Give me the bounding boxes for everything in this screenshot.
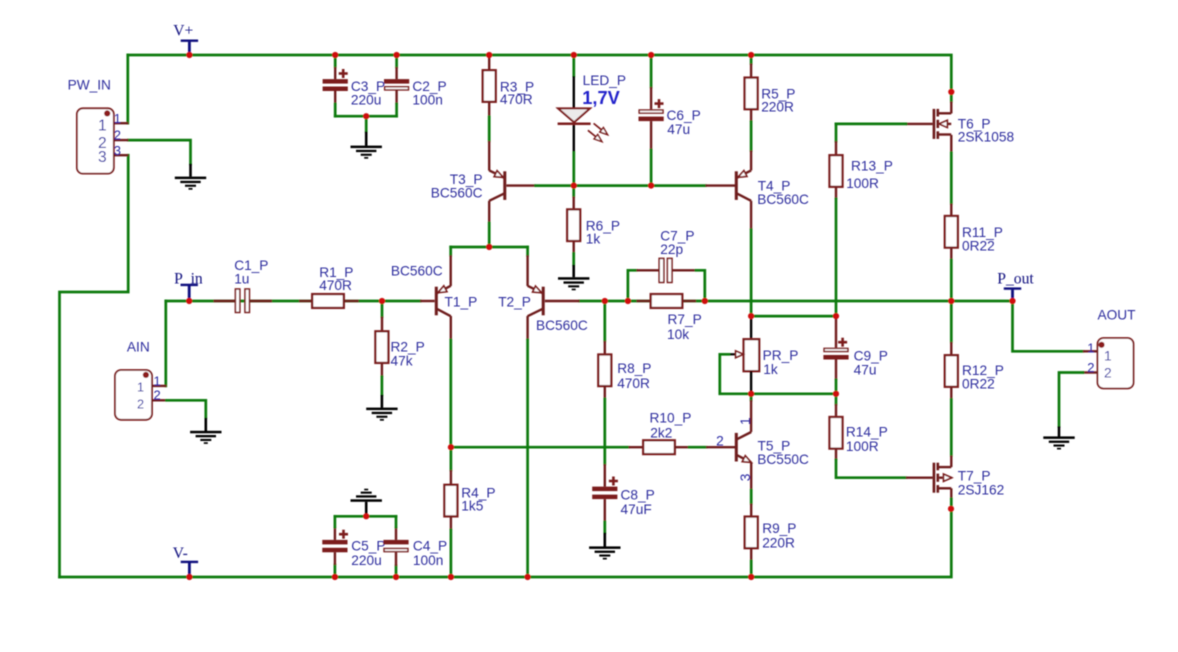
wire T3/T4 base rail [506,184,535,186]
supply flag V- [181,561,198,563]
transistor T3_P BC560C [488,141,490,171]
svg-text:1k: 1k [586,232,601,247]
wire bias top rail [751,315,836,318]
connector AIN [115,370,152,420]
svg-text:R7_P: R7_P [668,312,702,327]
LED LED_P 1,7V [572,55,575,76]
svg-text:R10_P: R10_P [650,410,692,425]
junction C2 top [394,52,400,58]
svg-text:3: 3 [114,143,121,158]
wire T5 emitter down [750,462,752,490]
svg-text:C8_P: C8_P [621,488,655,503]
svg-text:100R: 100R [846,176,879,191]
junction R4 bottom [448,574,454,580]
wire C5/C4 tops to ground [335,515,396,518]
ground below R2 [381,395,384,408]
svg-text:2: 2 [114,128,121,143]
junction P_in [186,298,192,304]
svg-text:1k: 1k [763,362,778,377]
junction C3 top [332,52,338,58]
svg-text:47uF: 47uF [621,502,652,517]
wire AOUT pin2 to ground [1059,373,1083,427]
wire PW_IN pin1 to V+ rail [126,55,129,123]
wire R13 down to bias node [835,199,838,316]
resistor R9_P 220R [750,504,752,517]
wire R8 to C8 [603,399,606,464]
wire T5 collector up [750,394,753,400]
svg-text:220R: 220R [761,99,794,114]
ground for AOUT pin2 [1058,426,1061,436]
junction LED top [571,52,577,58]
junction output node [948,298,954,304]
transistor T2_P BC560C [545,300,580,302]
junction V- on bottom rail [186,574,192,580]
svg-text:47u: 47u [667,122,690,137]
svg-text:PR_P: PR_P [763,348,799,363]
svg-text:100R: 100R [846,439,879,454]
svg-text:C5_P: C5_P [351,539,385,554]
wire V- bottom rail [60,509,952,577]
svg-text:R9_P: R9_P [762,521,796,536]
ground below R6 [572,265,575,277]
capacitor C7_P 22p [628,270,637,301]
resistor R8_P 470R [603,301,606,341]
svg-text:100n: 100n [412,93,442,108]
junction R1/R2/T1 base [379,298,385,304]
wire R4/T5 base row [451,446,629,449]
svg-text:470R: 470R [617,376,650,391]
svg-text:P_in: P_in [174,270,203,287]
svg-text:R14_P: R14_P [846,425,888,440]
connector AOUT [1098,338,1134,389]
capacitor C2_P 100n [395,55,398,67]
junction bias top / T4 collector [748,313,754,319]
wire T2 base to output row) [580,300,1013,303]
junction C6 bottom [648,183,654,189]
potentiometer PR_P 1k [750,316,752,339]
junction C3/C2 ground node [363,113,369,119]
junction R9 bottom [748,574,754,580]
wire T2 emitter up [526,247,529,255]
transistor T5_P BC550C [706,446,735,448]
svg-text:V+: V+ [173,23,193,40]
svg-text:2: 2 [1104,366,1112,381]
wire T1/T2 emitter rail [451,246,528,249]
svg-text:T1_P: T1_P [445,295,478,310]
svg-text:220R: 220R [762,535,795,550]
svg-text:47k: 47k [391,353,413,368]
ground below C3/C2 [365,132,368,146]
svg-text:C6_P: C6_P [667,108,701,123]
ground below C8 [603,533,606,547]
svg-text:10k: 10k [667,327,689,342]
svg-text:0R22: 0R22 [962,239,995,254]
resistor R5_P 220R [750,55,753,64]
junction C5 bottom [332,574,338,580]
svg-text:470R: 470R [500,92,533,107]
junction C6 top [648,52,654,58]
svg-text:2: 2 [716,434,724,449]
wire T1 collector down [450,316,452,340]
net flag P_in [181,284,198,286]
svg-text:2: 2 [1087,360,1094,375]
transistor T4_P BC560C [750,151,752,171]
svg-text:BC560C: BC560C [431,185,483,200]
transistor T6_P 2SK1058 N-MOSFET [950,92,953,102]
capacitor C4_P 100n [395,566,398,577]
wire R10 to T5 base [689,446,706,449]
junction C4 bottom [393,574,399,580]
junction T1 collector / R4 [448,444,454,450]
LED light arrows [594,123,602,130]
svg-text:100n: 100n [413,553,443,568]
wire output to AOUT pin1 [1013,301,1083,351]
svg-text:BC550C: BC550C [757,452,809,467]
svg-text:2k2: 2k2 [650,425,672,440]
resistor R3_P 470R [488,55,490,70]
svg-text:T2_P: T2_P [498,295,531,310]
wire AIN pin2 to ground [167,400,206,418]
svg-text:V-: V- [173,545,188,562]
resistor R6_P 1k [572,186,575,197]
junction C9 top [833,313,839,319]
junction R7/C7 right [702,298,708,304]
resistor R4_P 1k5 [450,447,453,470]
junction C9 bottom [833,391,839,397]
junction T7 drain [948,506,954,512]
svg-text:1: 1 [137,380,144,394]
capacitor C1_P 1u [214,300,235,302]
wire V+ top rail [128,55,952,92]
resistor R14_P 100R [835,394,838,404]
resistor R12_P 0R22 [950,301,953,342]
svg-text:2: 2 [137,397,144,411]
svg-text:LED_P: LED_P [583,73,626,88]
wire input column down to AIN [164,301,167,386]
svg-text:1: 1 [1104,349,1112,364]
svg-text:220u: 220u [351,93,381,108]
wire T1 emitter up [449,247,452,255]
capacitor C8_P 47uF [604,464,606,487]
wire T2 collector down to V- rail [526,316,528,340]
resistor R7_P 10k [637,300,651,302]
junction emitter rail / T3 collector [486,244,492,250]
svg-text:AIN: AIN [127,340,150,355]
svg-text:1k5: 1k5 [461,499,483,514]
ground for PW_IN pin2 [189,164,192,177]
svg-text:2SK1058: 2SK1058 [958,130,1015,145]
capacitor C9_P 47u [835,316,837,348]
ground above C5/C4 (inverted) [365,502,368,517]
svg-text:C9_P: C9_P [854,349,888,364]
wire T6 source to R11 [950,153,953,204]
svg-text:R8_P: R8_P [617,361,651,376]
svg-text:2: 2 [154,388,161,403]
wire T4 collector down [750,230,753,316]
resistor R2_P 47k [381,301,384,317]
junction T2 collector bottom [525,574,531,580]
svg-text:1: 1 [114,111,121,126]
svg-text:3: 3 [98,149,107,166]
svg-text:P_out: P_out [997,270,1034,287]
svg-text:1,7V: 1,7V [582,88,619,108]
svg-text:AOUT: AOUT [1098,308,1137,323]
svg-text:1: 1 [98,118,107,135]
svg-text:BC560C: BC560C [757,192,809,207]
wire pot bottom rail [751,392,836,395]
svg-text:1: 1 [154,373,161,388]
svg-text:R13_P: R13_P [851,159,893,174]
capacitor C5_P 220u [334,565,337,577]
svg-text:PW_IN: PW_IN [68,77,111,92]
svg-text:47u: 47u [854,363,877,378]
junction R8 top [602,298,608,304]
wire PW_IN pin2 to ground [128,140,190,164]
junction C7 left [625,298,631,304]
svg-text:T7_P: T7_P [958,468,991,483]
capacitor C6_P 47u [650,55,653,87]
junction P_out [1009,298,1015,304]
wire C3/C2 bottoms to ground [335,115,396,118]
wire R14 to T7 gate [836,460,906,478]
supply flag V+ [181,40,198,42]
svg-text:220u: 220u [351,553,381,568]
svg-text:C4_P: C4_P [413,539,447,554]
svg-text:BC560C: BC560C [536,318,588,333]
svg-text:470R: 470R [319,278,352,293]
svg-text:R2_P: R2_P [391,340,425,355]
transistor T1_P BC560C [420,300,435,302]
junction R5 top [748,52,754,58]
junction T6 drain [948,89,954,95]
wire T6 gate [836,123,906,126]
connector PW_IN [77,108,114,173]
resistor R11_P 0R22 [950,204,952,216]
wire R3 to T3 emitter [488,117,491,141]
resistor R1_P 470R [299,300,313,302]
junction LED bottom node [571,183,577,189]
wire input node row (P_in to T1 base) [166,300,420,303]
junction V+ on top rail [186,52,192,58]
svg-text:22p: 22p [660,242,683,257]
net flag P_out [1004,287,1021,289]
junction C5/C4 ground node [363,513,369,519]
resistor R13_P 100R [835,124,838,141]
junction pot bottom / wiper [748,391,754,397]
svg-text:0R22: 0R22 [962,377,995,392]
svg-text:1u: 1u [234,272,249,287]
junction R3 top [486,52,492,58]
transistor T7_P 2SJ162 P-MOSFET [950,456,952,468]
ground for AIN pin2 [205,418,208,431]
svg-text:BC560C: BC560C [391,264,443,279]
wire PW_IN pin3 to V- left rail [60,155,129,577]
svg-text:2SJ162: 2SJ162 [958,482,1004,497]
resistor R10_P 2k2 [629,446,644,448]
capacitor C3_P 220u [334,55,337,67]
svg-text:1: 1 [1087,340,1094,355]
